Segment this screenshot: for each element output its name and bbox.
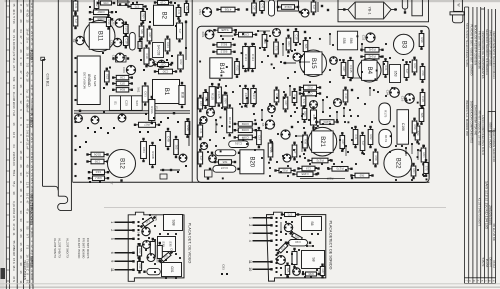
video board pin 1 — [115, 221, 134, 223]
resistor C153 — [274, 168, 295, 173]
svg-text:S73: S73 — [134, 4, 139, 8]
shield box top — [278, 1, 299, 11]
capacitor C191 — [229, 141, 249, 148]
resistor E184 — [315, 120, 338, 125]
transistor C60 — [111, 53, 124, 62]
svg-text:C067: C067 — [97, 10, 105, 14]
svg-text:C19: C19 — [306, 166, 311, 170]
transistor C66 — [122, 65, 135, 74]
svg-text:LADO COMPONENTES B/N FI: LADO COMPONENTES B/N FI — [481, 115, 485, 156]
svg-text:SA/9 121/12 190 KD 194 195: SA/9 121/12 190 KD 194 195 — [484, 181, 488, 229]
transistor X4 — [179, 154, 187, 162]
node n7 — [170, 169, 172, 171]
svg-text:11: 11 — [110, 268, 114, 272]
svg-text:7 S: 7 S — [25, 245, 29, 249]
node n8 — [185, 21, 187, 23]
wire to filter — [338, 9, 348, 11]
svg-text:5: 5 — [248, 232, 252, 234]
svg-text:40 K: 40 K — [12, 9, 16, 15]
svg-text:C083: C083 — [241, 128, 249, 132]
svg-text:26: 26 — [19, 255, 23, 259]
capacitor C125 — [216, 83, 221, 106]
capacitor C164 — [373, 149, 378, 168]
coil B4 — [358, 59, 381, 82]
svg-text:3 nF: 3 nF — [30, 232, 34, 238]
resistor CA1 — [127, 4, 146, 8]
svg-text:26 C9: 26 C9 — [12, 158, 16, 166]
capacitor C113 — [243, 43, 249, 72]
svg-text:6: 6 — [110, 252, 114, 254]
svg-text:21: 21 — [30, 42, 34, 46]
svg-text:C87: C87 — [199, 101, 203, 106]
transistor X3 — [118, 114, 126, 122]
svg-text:47 S: 47 S — [12, 276, 16, 282]
resistor C106 — [412, 57, 417, 76]
resistor S90 — [415, 123, 420, 144]
node bb1 — [317, 172, 319, 174]
main board left inner edge — [72, 0, 74, 182]
coil B12 — [108, 150, 136, 178]
module S1 C25 S2 — [110, 96, 143, 111]
svg-text:C87: C87 — [160, 62, 165, 66]
transistor X2 — [91, 116, 99, 124]
left board edge pads — [74, 57, 76, 177]
svg-text:C61: C61 — [111, 20, 115, 26]
resistor S22 — [105, 68, 110, 86]
transistor C55 — [301, 9, 309, 17]
svg-text:15 K: 15 K — [12, 258, 16, 264]
resistor S120 — [262, 31, 267, 51]
resistor C084 — [234, 135, 257, 140]
svg-text:S22: S22 — [105, 74, 109, 80]
resistor C165 — [257, 127, 262, 148]
transistor C61 — [111, 19, 123, 27]
transistor S50 — [330, 57, 338, 65]
module S58 S66 — [337, 31, 357, 50]
module S53 — [390, 65, 401, 83]
filter output wire — [391, 9, 397, 11]
svg-text:R22: R22 — [282, 168, 287, 172]
parts table column line 6 — [32, 0, 34, 289]
transistor X12 — [283, 154, 291, 162]
svg-text:C191: C191 — [235, 142, 243, 146]
resistor S126 — [203, 89, 208, 109]
transistor C16 — [400, 94, 414, 104]
svg-text:B4: B4 — [366, 67, 372, 75]
transistor E1 — [200, 116, 207, 123]
capacitor C74 — [311, 0, 316, 15]
svg-text:47: 47 — [19, 35, 23, 39]
transistor C57 — [293, 53, 301, 61]
svg-text:S73: S73 — [275, 46, 279, 51]
svg-text:9 C: 9 C — [30, 173, 34, 178]
svg-text:66 DJ: 66 DJ — [492, 260, 496, 268]
svg-text:MODELOS P-1835 P-2035 B/N: MODELOS P-1835 P-2035 B/N — [473, 25, 477, 65]
svg-text:47: 47 — [19, 70, 23, 74]
svg-text:B2: B2 — [160, 12, 166, 20]
svg-text:15: 15 — [19, 228, 23, 232]
transistor X11 — [268, 105, 276, 113]
resistor B111 — [212, 43, 235, 48]
capacitor C72 — [252, 0, 257, 16]
svg-text:S65: S65 — [359, 173, 364, 177]
svg-text:S65: S65 — [222, 160, 227, 164]
svg-text:16 nF: 16 nF — [30, 185, 34, 193]
svg-text:C30: C30 — [162, 69, 168, 73]
coil B21 — [308, 127, 337, 156]
node w2 — [351, 89, 353, 91]
svg-text:18: 18 — [19, 150, 23, 154]
svg-text:C16: C16 — [400, 96, 404, 102]
svg-text:KL23T 560/73: KL23T 560/73 — [65, 238, 69, 258]
node bb2 — [351, 177, 353, 179]
svg-text:S4 C03: S4 C03 — [156, 45, 160, 56]
capacitor at filter right — [402, 0, 407, 9]
resistor B112 — [212, 50, 235, 55]
connector W1 top right — [454, 0, 463, 11]
video board pin 11 — [115, 269, 134, 271]
svg-text:47 p: 47 p — [25, 208, 29, 214]
capacitor C145 — [348, 57, 353, 81]
scan mark bottom-left edge — [1, 268, 6, 279]
svg-text:DET.VISION: DET.VISION — [82, 72, 86, 89]
svg-text:C53: C53 — [198, 9, 202, 15]
svg-text:C125: C125 — [217, 91, 221, 99]
svg-text:26: 26 — [19, 9, 23, 13]
svg-text:R04: R04 — [224, 99, 228, 104]
svg-text:C30: C30 — [295, 240, 301, 244]
trimmer T2 — [269, 0, 275, 16]
svg-text:15: 15 — [30, 37, 34, 41]
resistor C181 — [419, 105, 424, 125]
trimmer L2 — [130, 33, 136, 51]
svg-text:7 K: 7 K — [30, 19, 34, 23]
svg-text:18: 18 — [25, 78, 29, 82]
resistor W0 — [281, 212, 299, 216]
resistor R07 — [134, 122, 160, 127]
module S39 — [158, 237, 176, 252]
svg-text:B3: B3 — [400, 41, 406, 49]
svg-text:KD1: KD1 — [201, 32, 205, 38]
svg-text:26: 26 — [19, 234, 23, 238]
wire top left — [118, 1, 130, 3]
svg-text:16: 16 — [25, 254, 29, 258]
svg-text:S17: S17 — [405, 69, 409, 74]
svg-text:C58: C58 — [103, 1, 108, 5]
svg-text:C58: C58 — [413, 125, 417, 130]
svg-text:1: 1 — [110, 221, 114, 223]
resistor R141 — [360, 48, 383, 53]
node b1 — [79, 110, 81, 112]
svg-text:S12B: S12B — [221, 28, 228, 32]
video board pin 2 — [115, 229, 134, 231]
svg-text:C19: C19 — [160, 0, 165, 4]
svg-text:3: 3 — [248, 217, 252, 219]
svg-text:R22: R22 — [138, 249, 142, 254]
sound board pin 11 — [253, 261, 272, 263]
capacitor C6b — [301, 93, 306, 109]
node m4 — [327, 9, 329, 11]
svg-text:16 C: 16 C — [12, 132, 16, 138]
capacitor CB5 — [383, 58, 388, 78]
resistor C104 — [139, 23, 144, 41]
capacitor C117 — [251, 85, 256, 107]
svg-text:C58: C58 — [138, 264, 142, 269]
svg-text:KL 23T 545/73 560/73: KL 23T 545/73 560/73 — [477, 198, 481, 227]
svg-text:4726: 4726 — [224, 7, 231, 11]
svg-text:16 C: 16 C — [25, 193, 29, 199]
svg-text:C10: C10 — [95, 170, 101, 174]
svg-text:C63: C63 — [144, 91, 148, 97]
svg-text:47 kΩ: 47 kΩ — [25, 9, 29, 17]
svg-text:5512: 5512 — [12, 170, 16, 177]
svg-text:S38: S38 — [171, 219, 175, 225]
node n6 — [162, 169, 164, 171]
node at filter output — [394, 8, 396, 10]
video board pin 9 — [115, 260, 134, 262]
video board pin 5 — [115, 238, 134, 240]
svg-text:S17: S17 — [199, 156, 203, 161]
resistor C10 — [88, 170, 109, 175]
svg-text:R38: R38 — [308, 272, 313, 276]
svg-text:S103: S103 — [124, 25, 128, 32]
capacitor R175 — [379, 103, 391, 125]
resistor B6D — [112, 88, 133, 92]
svg-text:C147: C147 — [220, 166, 228, 170]
svg-text:C58: C58 — [421, 71, 425, 76]
resistor S91 — [412, 118, 417, 137]
capacitor C115 — [235, 58, 240, 78]
svg-text:RF INTERNACIONAL: RF INTERNACIONAL — [29, 195, 33, 226]
resistor S101 — [97, 1, 115, 5]
svg-text:R22: R22 — [307, 85, 312, 89]
sound board pin 2 — [253, 224, 272, 226]
resistor S122 — [303, 37, 308, 55]
sound wires — [280, 222, 282, 232]
svg-text:5461-52162 TELEFUNKEN SABA: 5461-52162 TELEFUNKEN SABA — [465, 23, 469, 67]
module junction dots — [205, 29, 425, 181]
svg-text:C05: C05 — [94, 159, 100, 163]
capacitor CD5 — [341, 59, 346, 79]
capacitor C83 — [141, 138, 147, 162]
svg-text:C19: C19 — [125, 39, 129, 44]
cable C06-B11 left line — [43, 60, 46, 187]
capacitor W5 — [292, 248, 297, 268]
capacitor C73 — [260, 0, 265, 14]
module S8 — [302, 251, 325, 269]
svg-text:26: 26 — [19, 19, 23, 23]
resistor R0971 — [215, 150, 236, 156]
svg-text:C19: C19 — [295, 35, 299, 40]
faint rule upper — [104, 206, 446, 208]
svg-text:FR 46T 709/00 KL 23T 505: FR 46T 709/00 KL 23T 505 — [477, 111, 481, 146]
svg-text:18 n: 18 n — [12, 265, 16, 271]
capacitor C24 — [177, 20, 183, 43]
node n3 — [171, 62, 173, 64]
svg-text:21 nF: 21 nF — [30, 9, 34, 17]
resistor R172 — [307, 158, 332, 163]
resistor C05 — [86, 159, 108, 164]
resistor C027 — [234, 32, 257, 37]
svg-text:18 S: 18 S — [30, 178, 34, 184]
svg-text:18: 18 — [30, 92, 34, 96]
resistor R173 — [327, 167, 352, 172]
svg-text:33: 33 — [19, 210, 23, 214]
svg-text:TELEFUNKEN SERVICIO: TELEFUNKEN SERVICIO — [492, 128, 496, 162]
resistor C186 — [299, 85, 321, 90]
svg-text:S65: S65 — [185, 6, 189, 11]
svg-text:64: 64 — [12, 144, 16, 148]
pad E5 — [205, 170, 213, 177]
cap V8 — [147, 269, 161, 275]
left board right edge — [191, 0, 193, 182]
bus wire upper — [74, 110, 190, 112]
board edge hook — [58, 196, 72, 210]
module edge parts left — [198, 95, 203, 112]
node r2 — [304, 31, 306, 33]
resistor R130 — [227, 104, 233, 136]
svg-text:56 DJ 05 66: 56 DJ 05 66 — [492, 223, 496, 240]
svg-text:B1B: B1B — [180, 92, 184, 98]
sound board pin 5 — [253, 232, 272, 234]
resistor C082 — [234, 122, 257, 127]
svg-text:26: 26 — [19, 49, 23, 53]
svg-text:R172: R172 — [316, 158, 324, 162]
svg-text:S73: S73 — [287, 212, 292, 216]
svg-text:C145: C145 — [349, 65, 353, 73]
coil B11 — [84, 21, 115, 52]
module S6 — [302, 217, 322, 231]
resistor R113 — [277, 5, 299, 10]
svg-text:R38: R38 — [420, 38, 424, 43]
svg-text:3 S: 3 S — [25, 63, 29, 67]
diode V7 — [158, 250, 173, 264]
svg-text:12: 12 — [19, 100, 23, 104]
wire r3 — [283, 62, 296, 64]
svg-text:R04: R04 — [412, 169, 416, 174]
svg-text:33: 33 — [19, 172, 23, 176]
parts table row ticks — [6, 6, 9, 281]
svg-text:11: 11 — [19, 180, 23, 183]
svg-text:23 C: 23 C — [30, 137, 34, 143]
svg-text:S106: S106 — [94, 152, 101, 156]
svg-text:IB-958: IB-958 — [485, 259, 489, 268]
resistor C120 — [274, 39, 279, 58]
svg-text:KL23T 505/73: KL23T 505/73 — [53, 238, 57, 258]
svg-text:PLACA DET. DE VIDEO: PLACA DET. DE VIDEO — [188, 223, 192, 264]
capacitor V6 — [157, 242, 162, 262]
resistor C23a — [165, 36, 170, 55]
resistor C169 — [268, 139, 273, 160]
sound board pin 10 — [253, 268, 272, 270]
svg-text:C117: C117 — [252, 93, 256, 100]
svg-text:16: 16 — [19, 84, 23, 88]
diode W3 — [276, 241, 291, 256]
svg-text:47: 47 — [25, 200, 29, 204]
resistor C101 — [112, 75, 133, 79]
svg-text:CHASIS 958A TDA 440: CHASIS 958A TDA 440 — [473, 105, 477, 136]
transistor X8 — [261, 120, 274, 129]
parts table column line 3 — [16, 0, 18, 289]
svg-text:26: 26 — [19, 164, 23, 168]
sound board pin 3 — [253, 217, 272, 219]
svg-text:B21: B21 — [319, 136, 325, 147]
svg-text:R04: R04 — [142, 14, 146, 19]
svg-text:40 nF: 40 nF — [25, 105, 29, 113]
svg-text:C19: C19 — [145, 54, 149, 59]
svg-text:R10A: R10A — [150, 106, 154, 114]
resistor C158 — [340, 132, 345, 152]
svg-text:2: 2 — [110, 229, 114, 231]
svg-text:5461-52162 P-1835 P-2035: 5461-52162 P-1835 P-2035 — [488, 30, 492, 66]
resistor R142 — [360, 54, 383, 59]
svg-text:9 K: 9 K — [25, 124, 29, 128]
transistor Y2 — [334, 99, 342, 107]
svg-text:R04: R04 — [287, 42, 291, 47]
transistor X1 — [75, 115, 83, 123]
svg-text:C32: C32 — [362, 35, 366, 41]
svg-text:S65: S65 — [286, 268, 290, 273]
module wire segments — [216, 31, 418, 160]
parts table column line 1 — [5, 0, 7, 289]
sound board pin 4 — [253, 240, 272, 242]
resistor C132 — [283, 94, 288, 113]
capacitor C147 — [213, 166, 236, 173]
svg-text:12 T: 12 T — [30, 145, 34, 151]
title block bottom box — [465, 278, 496, 284]
svg-text:R22: R22 — [236, 66, 240, 71]
capacitor C8A — [302, 105, 307, 123]
svg-text:TT: TT — [110, 181, 114, 185]
transistor C58 — [207, 109, 215, 117]
svg-text:40: 40 — [25, 164, 29, 168]
svg-text:30: 30 — [25, 46, 29, 50]
capacitor C166 — [397, 110, 409, 145]
resistor C103 — [124, 34, 129, 49]
svg-text:C18: C18 — [421, 96, 425, 102]
svg-text:S23: S23 — [135, 100, 139, 106]
video board small parts — [137, 243, 142, 259]
svg-text:C41: C41 — [74, 4, 78, 9]
resistor CA32 — [214, 160, 236, 165]
svg-text:R22: R22 — [369, 135, 373, 140]
svg-text:R179: R179 — [384, 135, 388, 143]
resistor C155 — [292, 172, 317, 177]
node b2 — [173, 112, 175, 114]
svg-text:18: 18 — [30, 132, 34, 136]
svg-text:R125: R125 — [211, 93, 215, 101]
svg-text:11: 11 — [248, 260, 252, 264]
node at filter input — [343, 8, 345, 10]
svg-text:958A B/N FI VIDEO: 958A B/N FI VIDEO — [488, 122, 492, 148]
parts table column line 4 — [22, 0, 24, 289]
svg-text:C06 B11: C06 B11 — [46, 74, 50, 87]
resistor C4B — [166, 128, 171, 150]
svg-text:R173: R173 — [336, 167, 344, 171]
svg-text:23 S: 23 S — [30, 165, 34, 171]
svg-text:72: 72 — [30, 244, 34, 248]
svg-text:FI VIDEO: FI VIDEO — [29, 113, 33, 127]
svg-text:C25: C25 — [124, 100, 128, 106]
svg-text:3 kΩ: 3 kΩ — [30, 274, 34, 281]
main board bottom edge — [73, 181, 430, 183]
resistor E2 — [198, 122, 203, 140]
resistor S106 — [86, 152, 108, 157]
svg-text:47 nF: 47 nF — [12, 223, 16, 231]
coil B1 — [153, 80, 180, 104]
svg-text:30: 30 — [30, 25, 34, 29]
capacitor R179 — [379, 129, 392, 147]
